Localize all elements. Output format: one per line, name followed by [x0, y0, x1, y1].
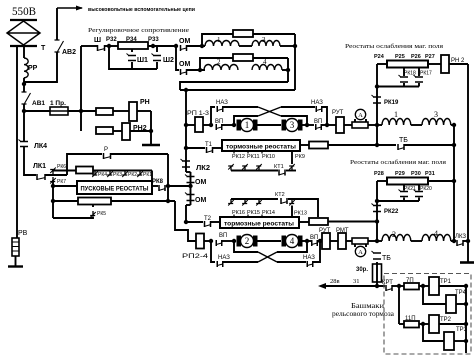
svg-text:ВП: ВП: [310, 235, 318, 241]
wire to RK22 riser: [328, 221, 377, 223]
node bracket tap bottom: [232, 239, 236, 243]
right return bus: [465, 286, 467, 353]
svg-text:РК16: РК16: [232, 210, 245, 216]
relay RN2: [122, 123, 130, 140]
wire RN2 to right edge: [449, 63, 468, 65]
wire resistor right mid: [428, 180, 454, 182]
node bracket tap: [232, 123, 236, 127]
svg-text:ПУСКОВЫЕ РЕОСТАТЫ: ПУСКОВЫЕ РЕОСТАТЫ: [81, 187, 149, 193]
ground: [142, 144, 160, 147]
contact RK13 glyph: [289, 199, 294, 204]
contact RK12 glyph: [228, 166, 233, 171]
svg-text:Р27: Р27: [425, 54, 435, 60]
wire shunt line: [81, 45, 97, 47]
resistor row2: [233, 54, 253, 61]
node jog RK8: [188, 184, 192, 188]
svg-text:Р26: Р26: [411, 54, 421, 60]
wire box feed: [53, 185, 77, 187]
node res2 feed: [51, 199, 55, 203]
svg-text:ТР2: ТР2: [440, 317, 452, 323]
node bus top: [184, 88, 188, 92]
wire coils bottom: [411, 240, 422, 242]
svg-text:высоковольтные вспомогательные: высоковольтные вспомогательные цепи: [88, 7, 195, 13]
wire VP2 to RUT: [322, 124, 336, 126]
wire 28v: [325, 285, 385, 287]
svg-text:рельсового тормоза: рельсового тормоза: [332, 310, 395, 318]
contact RK21: [403, 185, 405, 191]
row1 return wire: [180, 89, 295, 91]
wire res2 tail: [111, 200, 175, 202]
wire AB1 down to LK4: [23, 111, 25, 142]
contactor RK19: [373, 97, 381, 103]
contactor Ш: [98, 45, 105, 51]
svg-text:тормозные реостаты: тормозные реостаты: [226, 145, 296, 151]
contactor TB2: [373, 253, 381, 259]
tap rail bottom: [231, 198, 278, 200]
wire VP4 to RUT2: [318, 240, 322, 242]
svg-text:ТР1: ТР1: [440, 279, 452, 285]
svg-text:1: 1: [217, 36, 221, 44]
wire coil4 to LK3: [451, 240, 456, 242]
ammeter shunt top: [352, 122, 368, 128]
field coil 1: [382, 118, 411, 125]
coil TP1: [429, 277, 439, 295]
left drop of rheostat block: [52, 180, 54, 218]
wire TP2 to bus: [439, 323, 466, 325]
svg-text:РК15: РК15: [247, 210, 260, 216]
node P33: [151, 44, 155, 48]
contactor RK8: [159, 185, 165, 191]
wire resistor to RN: [113, 110, 129, 112]
relay RP2-4: [196, 234, 204, 249]
riser to shunt line: [80, 46, 82, 131]
contactor VP1: [216, 124, 222, 130]
field coil 2: [382, 234, 411, 241]
svg-text:1: 1: [394, 110, 398, 119]
wire RN to ground riser: [137, 110, 151, 112]
wire 7P to TP1: [419, 285, 429, 287]
coil TP3: [444, 332, 454, 350]
svg-text:1: 1: [245, 120, 250, 130]
wire resistor left top: [377, 63, 387, 65]
wire winding3 to corner: [280, 45, 295, 47]
ammeter bottom: [354, 244, 356, 247]
wire AB1 to fuse line: [24, 104, 50, 111]
svg-text:РК11: РК11: [247, 154, 260, 160]
wire bus to RP1-3: [186, 124, 195, 126]
node shorting bar mid: [375, 199, 379, 203]
svg-text:РК12: РК12: [232, 154, 245, 160]
contactor T2: [205, 221, 211, 227]
node P32: [107, 44, 111, 48]
wire OM1 to row1: [187, 45, 205, 47]
svg-text:2: 2: [245, 236, 250, 246]
main bus upper: [185, 90, 187, 172]
resistor RN2 feed: [96, 127, 113, 134]
wire NAZ4 riser: [313, 241, 320, 262]
svg-text:НАЗ: НАЗ: [216, 100, 228, 106]
svg-text:4: 4: [434, 229, 438, 238]
wire RP2-4 to VP3: [204, 240, 213, 242]
relay RN2 coil: [441, 55, 449, 73]
wire TP4 to bus: [456, 303, 466, 305]
outer box top with P contact: [67, 154, 102, 175]
contactor KT2: [281, 198, 287, 204]
node motor3 out: [305, 123, 309, 127]
wire KRT to split: [392, 285, 404, 287]
contact RK1: [137, 171, 142, 176]
RK13 column: [291, 206, 293, 218]
node fuse junction: [79, 109, 83, 113]
contactor OM1: [181, 45, 187, 51]
node TP1 bus: [464, 284, 468, 288]
svg-text:РК7: РК7: [57, 179, 66, 185]
wire cross to NAZ4: [277, 261, 306, 263]
starting rheostats box: [77, 181, 152, 194]
wire RN2 to riser: [130, 130, 151, 132]
svg-text:4: 4: [290, 236, 295, 246]
node rail brake split: [397, 284, 401, 288]
svg-text:А: А: [358, 112, 363, 119]
svg-text:3: 3: [290, 120, 295, 130]
svg-text:РК19: РК19: [384, 100, 399, 106]
node TP4 bus: [464, 302, 468, 306]
wire TP1 to bus: [439, 285, 466, 287]
shorting bar mid: [377, 200, 419, 202]
svg-text:Т: Т: [41, 45, 46, 52]
node right riser TB: [452, 143, 456, 147]
node ground riser: [466, 239, 470, 243]
node reverser split bottom: [209, 239, 213, 243]
svg-text:РН: РН: [140, 99, 150, 106]
contactor Ш1: [131, 49, 133, 52]
motor 1: [237, 120, 242, 131]
TP4 branch: [423, 286, 446, 304]
svg-text:Р32: Р32: [106, 37, 117, 43]
contactor KT1: [279, 170, 285, 176]
node right riser bottom: [452, 239, 456, 243]
wire shunt to coil1: [368, 124, 382, 126]
svg-text:ЛК2: ЛК2: [196, 163, 210, 172]
node reverser split top: [209, 123, 213, 127]
node bus RP1-3: [184, 123, 188, 127]
relay RN: [129, 102, 137, 121]
node field tap bottom: [375, 239, 379, 243]
svg-text:НАЗ: НАЗ: [311, 100, 323, 106]
box1 taps: [233, 151, 235, 154]
contact RK3: [107, 171, 112, 176]
node braking tap top: [375, 143, 379, 147]
node T2 chain join: [375, 219, 379, 223]
svg-text:Р: Р: [104, 147, 108, 153]
svg-text:РК2: РК2: [128, 172, 137, 178]
ammeter top: [354, 119, 356, 122]
wire box output: [152, 185, 158, 187]
wire motor1 to motor3: [257, 124, 281, 126]
contactor TB1: [398, 144, 404, 150]
wire TP3 to bus: [454, 340, 466, 342]
contact RK18: [403, 68, 405, 77]
svg-text:Т2: Т2: [204, 216, 212, 222]
wire resistor right top: [428, 63, 441, 65]
wire RK8 to bus: [166, 185, 191, 187]
svg-text:АВ1: АВ1: [32, 100, 45, 107]
main bus lower: [185, 205, 187, 222]
svg-text:РВ: РВ: [18, 230, 28, 237]
node naz4 join: [318, 239, 322, 243]
wire box2 output: [299, 221, 309, 223]
svg-text:2: 2: [217, 58, 221, 66]
braking rheostats box 2: [220, 217, 299, 228]
contactor NAZ1: [217, 106, 223, 112]
inductor PP: [24, 58, 28, 78]
svg-text:Р24: Р24: [374, 54, 385, 60]
contact RK16 glyph: [228, 199, 233, 204]
wire RMT to shunt: [346, 240, 352, 242]
OM2 branch: [176, 46, 179, 70]
coil TP4: [446, 295, 456, 313]
PB ground: [15, 256, 17, 266]
contact RK15 glyph: [242, 199, 247, 204]
motor 2: [237, 236, 242, 247]
wire cross to NAZ2: [281, 106, 315, 108]
resistor P34: [118, 42, 148, 49]
wire to P34: [105, 45, 118, 47]
relay RMT: [338, 233, 346, 249]
svg-text:АВ2: АВ2: [62, 49, 76, 56]
svg-text:Ш: Ш: [94, 37, 101, 44]
node TP4 tap: [421, 284, 425, 288]
winding 4: [252, 65, 282, 71]
svg-text:КТ2: КТ2: [275, 192, 285, 198]
svg-text:ТБ: ТБ: [399, 137, 408, 144]
contactor VP3: [216, 240, 222, 246]
svg-text:Р33: Р33: [148, 37, 159, 43]
svg-text:НАЗ: НАЗ: [218, 255, 230, 261]
breaker AB2 contact: [55, 40, 60, 52]
dashed enclosure: [384, 274, 471, 355]
wire LK3 to ground riser: [463, 240, 468, 242]
contactor LK2: [182, 161, 190, 167]
svg-text:ВП: ВП: [314, 119, 322, 125]
contact RK6: [50, 170, 55, 175]
svg-text:РК8: РК8: [152, 179, 164, 185]
svg-text:КТ1: КТ1: [274, 164, 284, 170]
wire T1 to box: [213, 147, 222, 149]
contact RK7: [50, 177, 55, 182]
node row2 tap: [198, 68, 202, 72]
row2 right drop: [287, 58, 289, 82]
svg-text:2: 2: [392, 230, 396, 239]
contactor NAZ4: [307, 261, 313, 267]
OM jog bottom link: [186, 204, 191, 206]
svg-text:ВП: ВП: [219, 233, 227, 239]
svg-text:Р29: Р29: [395, 171, 405, 177]
svg-text:Реостаты ослабления маг. поля: Реостаты ослабления маг. поля: [345, 43, 443, 50]
braking rheostats box 1: [222, 140, 300, 151]
svg-text:Р34: Р34: [126, 37, 137, 43]
svg-text:РУТ: РУТ: [319, 228, 331, 234]
node RN2 junction: [149, 129, 153, 133]
contactor OM3: [187, 177, 195, 183]
jog to RP2-4 line: [175, 201, 196, 241]
svg-text:РК6: РК6: [57, 164, 66, 170]
node right riser mid: [452, 179, 456, 183]
contact RK10 glyph: [256, 166, 261, 171]
svg-text:РК3: РК3: [113, 172, 122, 178]
wire winding4 corner: [282, 69, 288, 71]
wire to TB1: [328, 144, 396, 146]
node OM split: [174, 44, 178, 48]
wire under motor4: [277, 241, 307, 252]
node row2 right: [286, 68, 290, 72]
wire box1 output: [300, 144, 309, 146]
wire NAZ3 to cross: [223, 261, 258, 263]
contactor NAZ3: [217, 261, 223, 267]
taps line drop: [151, 171, 153, 182]
svg-text:Р30: Р30: [411, 171, 421, 177]
split down to 11P: [398, 286, 400, 324]
rheostat taps line: [52, 170, 76, 172]
contactor Ш2: [156, 46, 158, 52]
wire RUT2 to RMT: [330, 240, 338, 242]
tap rail right: [286, 170, 296, 172]
relay RUT bottom: [322, 233, 330, 249]
wire resistor left mid: [377, 180, 387, 182]
ground right: [460, 261, 474, 264]
svg-text:Ш1: Ш1: [137, 57, 148, 64]
svg-text:РМТ: РМТ: [336, 228, 349, 234]
contactor VP4: [312, 240, 318, 246]
wire over motor3: [281, 116, 307, 125]
wire NAZ2 riser: [322, 107, 327, 125]
bypass rail: [109, 46, 157, 69]
resistor RN feed: [96, 108, 113, 115]
svg-text:ЛКЗ: ЛКЗ: [455, 234, 466, 240]
contact RK11 glyph: [242, 166, 247, 171]
contactor T1: [207, 147, 213, 153]
TP3 branch: [423, 324, 444, 341]
winding 3: [252, 41, 280, 46]
svg-text:НАЗ: НАЗ: [303, 255, 315, 261]
svg-text:ЛК4: ЛК4: [34, 143, 47, 150]
bracket under motor2: [234, 241, 258, 252]
node outer box cross2: [166, 199, 170, 203]
pantograph T: [10, 20, 37, 46]
wire OM2 to row2: [187, 69, 205, 71]
OM jog vertical: [190, 172, 192, 205]
wire RP to VP: [203, 124, 213, 126]
svg-text:РК5: РК5: [97, 211, 106, 217]
wire P33: [148, 45, 176, 47]
relay RUT top: [336, 117, 344, 133]
tap rail bottom right: [288, 199, 318, 217]
wire RUT to shunt: [344, 124, 352, 126]
wire 11P to TP2: [419, 323, 429, 325]
shorting bar top: [377, 86, 419, 88]
svg-text:ЛК1: ЛК1: [33, 163, 46, 170]
ground riser right: [467, 241, 469, 262]
node 28v junction: [375, 284, 379, 288]
svg-text:Ш2: Ш2: [163, 57, 174, 64]
motor 3: [282, 120, 287, 131]
wire motor4 to VP4: [302, 240, 311, 242]
contactor VP2: [316, 124, 322, 130]
resistor rheostat tap: [76, 167, 93, 174]
wire res2 feed: [53, 200, 78, 202]
node AB junction: [22, 82, 26, 86]
wire to RN2: [113, 130, 122, 132]
box2 taps: [233, 215, 235, 218]
contactor LK4: [20, 142, 28, 147]
winding 1: [205, 41, 239, 46]
node TP2 bus: [464, 322, 468, 326]
svg-text:РУТ: РУТ: [332, 110, 344, 116]
contact RK14 glyph: [256, 199, 261, 204]
OM jog top link: [186, 171, 191, 173]
wire bus to T2: [186, 221, 203, 223]
svg-text:РК14: РК14: [262, 210, 275, 216]
node shorting bar top: [375, 84, 379, 88]
row2 top wire: [200, 58, 288, 70]
svg-text:Т1: Т1: [205, 142, 213, 148]
svg-text:РК21: РК21: [404, 186, 416, 192]
node bus T2: [184, 220, 188, 224]
contactor OM2: [181, 69, 187, 75]
ground riser: [150, 111, 152, 144]
contactor RK22: [373, 206, 381, 212]
wire T2 to box2: [211, 221, 220, 223]
wire pantograph down: [23, 46, 25, 58]
svg-text:Башмаки: Башмаки: [351, 302, 384, 310]
wire NAZ1 to cross: [223, 106, 258, 108]
resistor rheostat lower: [78, 198, 111, 205]
wire LK1 to box: [45, 174, 67, 176]
left riser field top: [376, 64, 378, 125]
svg-text:ТР4: ТР4: [455, 290, 467, 296]
wire coils top: [411, 124, 422, 126]
svg-text:Р25: Р25: [395, 54, 405, 60]
cross wires bottom: [258, 252, 277, 262]
node right riser top: [452, 123, 456, 127]
field coil 3: [422, 118, 451, 125]
node TP3 tap: [421, 322, 425, 326]
svg-text:РП2-4: РП2-4: [182, 253, 209, 260]
wire bus to T1: [186, 147, 205, 149]
contactor LK3: [457, 240, 463, 246]
wire PP to junction: [23, 78, 25, 92]
wire VP1 to motor1: [222, 124, 234, 126]
svg-text:тормозные реостаты: тормозные реостаты: [224, 222, 294, 228]
cross wires: [258, 107, 281, 116]
svg-text:Р28: Р28: [374, 171, 384, 177]
wire between windings: [239, 45, 252, 47]
svg-text:РК20: РК20: [420, 186, 432, 192]
wire motor3 to VP2: [302, 124, 314, 126]
taps line with RK contacts: [93, 170, 152, 172]
svg-text:28в: 28в: [330, 278, 340, 285]
contactor OM4: [187, 195, 195, 201]
fuse 1Pr: [50, 107, 68, 115]
node outer box cross1: [166, 184, 170, 188]
node naz2 join: [325, 123, 329, 127]
NAZ1 branch: [211, 107, 215, 125]
wire coil3 to right riser: [451, 124, 454, 126]
svg-text:РК10: РК10: [262, 154, 275, 160]
svg-text:РК9: РК9: [295, 154, 305, 160]
svg-text:РР: РР: [28, 65, 38, 72]
svg-text:Реостаты ослабления маг. поля: Реостаты ослабления маг. поля: [350, 159, 446, 166]
